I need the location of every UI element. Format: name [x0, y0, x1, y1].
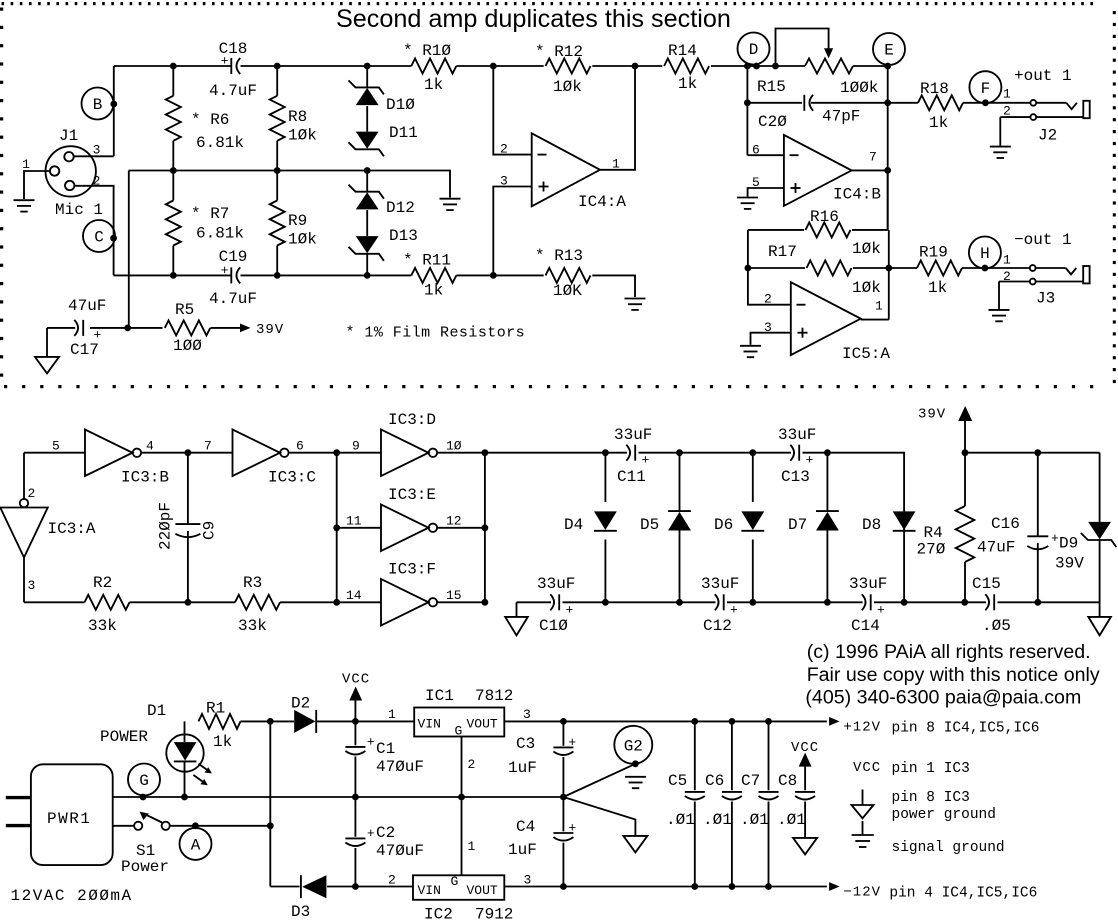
svg-text:1ØK: 1ØK: [553, 282, 582, 300]
svg-text:D7: D7: [788, 516, 807, 534]
junction node G: [140, 794, 147, 801]
svg-text:47ØuF: 47ØuF: [376, 842, 424, 860]
wire IC1 ground pin: [462, 737, 476, 798]
wire mid rail: [129, 171, 450, 198]
svg-text:+: +: [806, 453, 814, 468]
svg-text:C19: C19: [219, 248, 248, 266]
junction C20 right: [884, 99, 891, 106]
svg-text:IC3:A: IC3:A: [48, 520, 96, 538]
junction pot wiper: [772, 63, 779, 70]
wire J3 ground stem: [998, 282, 1000, 309]
node A: [180, 828, 212, 860]
wire C20 rail: [747, 102, 887, 104]
wire IC3:B output: [141, 439, 188, 454]
signal ground at J1 pin 1: [14, 200, 35, 211]
svg-text:IC3:E: IC3:E: [388, 486, 436, 504]
note: 1% film resistors: [346, 325, 526, 342]
svg-text:7: 7: [869, 150, 877, 165]
junction R12/R14: [632, 63, 639, 70]
wire -12V rail: [563, 886, 827, 888]
junction R17 right: [885, 265, 892, 272]
junction node D left: [744, 63, 751, 70]
svg-text:47ØuF: 47ØuF: [376, 758, 424, 776]
capacitor C15: [972, 575, 1011, 635]
svg-text:47uF: 47uF: [68, 297, 106, 315]
svg-text:D8: D8: [862, 516, 881, 534]
svg-text:C18: C18: [219, 40, 248, 58]
wire pump bottom rail: [517, 601, 1100, 603]
svg-text:D13: D13: [389, 227, 418, 245]
svg-text:1k: 1k: [929, 114, 948, 132]
svg-text:3: 3: [523, 707, 531, 722]
svg-text:1: 1: [388, 707, 396, 722]
svg-text:D6: D6: [714, 516, 733, 534]
junction top D10: [364, 63, 371, 70]
resistor R13: [535, 247, 591, 300]
junction C1 rail: [352, 794, 359, 801]
svg-text:1k: 1k: [424, 76, 443, 94]
junction G2: [632, 760, 639, 767]
capacitor C1: [345, 721, 424, 797]
svg-text:C1Ø: C1Ø: [539, 617, 568, 635]
wire J1 pin1 to ground: [24, 171, 50, 199]
junction C5 bottom: [691, 883, 698, 890]
junction G2 fan: [560, 794, 567, 801]
junction C9 bottom: [185, 599, 192, 606]
wire IC2 output: [504, 873, 563, 888]
junction C4 bottom: [560, 883, 567, 890]
junction C3 top: [560, 718, 567, 725]
svg-text:1Øk: 1Øk: [852, 279, 881, 297]
capacitor C2: [345, 797, 424, 887]
svg-text:VOUT: VOUT: [467, 883, 498, 898]
svg-text:(405) 340-6300 paia@paia.com: (405) 340-6300 paia@paia.com: [805, 687, 1081, 709]
svg-text:IC3:B: IC3:B: [121, 469, 169, 487]
svg-text:pin 4 IC4,IC5,IC6: pin 4 IC4,IC5,IC6: [889, 886, 1037, 902]
wire E vertical: [887, 66, 889, 230]
junction 39V feed: [124, 325, 131, 332]
capacitor C16: [977, 453, 1059, 603]
junction pump top D4: [602, 449, 609, 456]
svg-text:R14: R14: [668, 42, 697, 60]
legend power ground: [852, 790, 996, 824]
junction AC vertical: [267, 822, 274, 829]
svg-text:IC3:F: IC3:F: [388, 561, 436, 579]
svg-text:+out 1: +out 1: [1014, 67, 1072, 85]
capacitor C12: [701, 575, 739, 635]
svg-text:33uF: 33uF: [537, 575, 575, 593]
transformer PWR1: [31, 764, 113, 865]
junction regulators ground: [458, 794, 465, 801]
svg-text:27Ø: 27Ø: [917, 541, 946, 559]
wire 39V feed vertical: [128, 171, 130, 328]
junction mid D11: [364, 167, 371, 174]
svg-text:1Ø: 1Ø: [446, 439, 462, 454]
svg-text:6.81k: 6.81k: [196, 225, 244, 243]
wire R16 left: [748, 230, 791, 305]
junction IC4:B output: [884, 167, 891, 174]
svg-text:C16: C16: [991, 515, 1020, 533]
svg-text:C8: C8: [778, 772, 797, 790]
capacitor C5: [668, 721, 705, 886]
junction R1/D2: [267, 718, 274, 725]
svg-text:1uF: 1uF: [508, 759, 537, 777]
wire D vertical: [746, 66, 748, 155]
resistor R16: [806, 208, 881, 258]
svg-text:33uF: 33uF: [849, 575, 887, 593]
wire R19 leads: [889, 267, 985, 269]
svg-text:3: 3: [500, 173, 508, 188]
wire R5 to arrow: [211, 327, 241, 329]
wire G2 fan up: [563, 764, 635, 797]
svg-text:C13: C13: [781, 468, 810, 486]
op-amp IC4:B: [752, 135, 881, 206]
svg-text:2: 2: [500, 142, 508, 157]
svg-text:IC3:C: IC3:C: [268, 469, 316, 487]
svg-text:pin 8 IC3: pin 8 IC3: [892, 790, 970, 806]
wire IC5:A output: [861, 319, 889, 321]
resistor R11: [403, 252, 456, 300]
svg-text:1k: 1k: [678, 75, 697, 93]
svg-text:* R12: * R12: [535, 43, 583, 61]
capacitor C11: [614, 426, 652, 486]
svg-text:VIN: VIN: [418, 883, 441, 898]
svg-text:G: G: [455, 724, 463, 739]
svg-text:R15: R15: [757, 78, 786, 96]
junction pump bottom D6: [749, 599, 756, 606]
junction C2/D3: [352, 883, 359, 890]
svg-text:R19: R19: [919, 244, 948, 262]
inverter IC3:F: [381, 561, 437, 626]
svg-text:.Ø1: .Ø1: [740, 811, 769, 829]
junction pump top D6: [749, 449, 756, 456]
svg-text:47pF: 47pF: [822, 108, 860, 126]
svg-text:4.7uF: 4.7uF: [209, 290, 257, 308]
svg-text:G: G: [139, 772, 149, 790]
svg-text:IC3:D: IC3:D: [388, 411, 436, 429]
junction top R8: [274, 63, 281, 70]
svg-text:15: 15: [446, 588, 462, 603]
regulator IC2 7912: [413, 874, 513, 920]
wire IC4:B output: [852, 169, 888, 171]
op-amp IC5:A: [764, 282, 890, 363]
svg-text:.Ø1: .Ø1: [703, 811, 732, 829]
svg-text:−12V: −12V: [843, 885, 881, 901]
wire D2 leads: [270, 720, 355, 722]
svg-text:+: +: [568, 820, 576, 835]
svg-text:J3: J3: [1036, 290, 1055, 308]
svg-text:pin 1 IC3: pin 1 IC3: [892, 761, 970, 777]
junction row1 x336: [333, 449, 340, 456]
switch S1: [121, 812, 170, 876]
junction pump top D7: [824, 449, 831, 456]
wire ground rail left: [113, 796, 564, 798]
legend VCC: [853, 760, 970, 777]
svg-text:* R1Ø: * R1Ø: [403, 42, 451, 60]
wire G2 fan down: [563, 797, 635, 836]
svg-text:1: 1: [1003, 87, 1011, 102]
svg-text:.Ø1: .Ø1: [777, 811, 806, 829]
svg-text:33uF: 33uF: [701, 575, 739, 593]
wire IC4:B pin5: [748, 188, 784, 197]
svg-text:6: 6: [296, 439, 304, 454]
wire R2 leads: [24, 601, 235, 603]
svg-text:Second amp duplicates this sec: Second amp duplicates this section: [336, 5, 731, 33]
wire bottom rail R13 to ground: [592, 275, 635, 297]
resistor R1: [199, 700, 241, 752]
signal ground at IC4:B pin5: [737, 198, 758, 209]
svg-text:C7: C7: [741, 772, 760, 790]
svg-text:power ground: power ground: [892, 807, 996, 823]
zener D13: [349, 210, 418, 275]
resistor R19: [917, 244, 962, 298]
svg-text:R17: R17: [768, 243, 797, 261]
svg-text:D2: D2: [291, 695, 310, 713]
junction VCC/C1: [352, 718, 359, 725]
wire IC4:A pin3: [493, 187, 531, 276]
resistor R6: [166, 66, 244, 171]
node G2: [614, 726, 652, 764]
signal ground at J3: [989, 310, 1010, 321]
svg-text:* 1% Film Resistors: * 1% Film Resistors: [346, 325, 526, 342]
junction R10/R12: [490, 63, 497, 70]
svg-text:+: +: [367, 734, 375, 749]
svg-text:IC1: IC1: [425, 687, 454, 705]
junction 39V rail R4: [962, 449, 969, 456]
svg-text:12VAC 2ØØmA: 12VAC 2ØØmA: [11, 887, 133, 905]
svg-text:R18: R18: [920, 80, 949, 98]
svg-text:7812: 7812: [475, 687, 513, 705]
wire IC5:A pin3: [751, 333, 791, 345]
svg-text:+: +: [730, 602, 738, 617]
wire 39V top rail: [965, 452, 1100, 454]
junction row1 x484: [482, 449, 489, 456]
svg-text:47uF: 47uF: [977, 539, 1015, 557]
junction C7 top: [765, 718, 772, 725]
wire node D to pot: [757, 65, 806, 67]
wire S1 lead: [113, 825, 134, 827]
junction mid R6: [170, 167, 177, 174]
svg-text:1k: 1k: [213, 733, 232, 751]
svg-text:+: +: [642, 453, 650, 468]
svg-text:.Ø5: .Ø5: [982, 617, 1011, 635]
capacitor C20: [758, 95, 860, 131]
label .01 C5: [666, 811, 695, 829]
resistor R2: [85, 574, 130, 635]
svg-text:D3: D3: [291, 903, 310, 920]
wire IC3:A input: [24, 453, 35, 501]
diode D2: [291, 695, 316, 733]
label +out 1: [1014, 67, 1072, 85]
resistor R9: [270, 171, 317, 276]
wire top rail R14 to node D: [711, 65, 756, 67]
wire IC4:A output: [600, 66, 635, 170]
svg-text:Mic 1: Mic 1: [55, 201, 103, 219]
arrow 39V rail: [918, 406, 972, 423]
junction node C: [110, 235, 117, 242]
wire J1 pin3 to node B: [74, 155, 114, 157]
svg-text:C11: C11: [617, 468, 646, 486]
junction pump bottom D4: [602, 599, 609, 606]
capacitor C19: [209, 248, 257, 308]
diode D3: [291, 875, 326, 920]
wire to IC3:D: [337, 439, 381, 454]
junction node F: [982, 99, 989, 106]
svg-text:2: 2: [468, 757, 476, 772]
svg-text:* R13: * R13: [535, 247, 583, 265]
capacitor C8: [778, 740, 819, 838]
svg-text:D9: D9: [1059, 535, 1078, 553]
wire mid vertical x336: [336, 453, 338, 603]
svg-text:4.7uF: 4.7uF: [209, 82, 257, 100]
junction C6 top: [729, 718, 736, 725]
svg-text:39V: 39V: [1055, 555, 1084, 573]
junction R17 left: [745, 265, 752, 272]
svg-text:(c) 1996 PAiA all rights reser: (c) 1996 PAiA all rights reserved.: [807, 641, 1091, 663]
svg-text:signal ground: signal ground: [892, 840, 1005, 856]
svg-text:R2: R2: [93, 574, 112, 592]
resistor R8: [270, 66, 317, 171]
power ground at G2 fan: [623, 836, 647, 853]
junction pump bottom D5: [676, 599, 683, 606]
signal ground at J2: [990, 147, 1011, 158]
inverter IC3:C: [233, 430, 317, 487]
wire S1 to vertical: [170, 825, 270, 827]
wire IC2 ground pin: [462, 797, 476, 875]
arrow 39V at R5: [240, 322, 284, 338]
svg-text:J2: J2: [1038, 127, 1057, 145]
pot R15: [757, 59, 878, 98]
wire top rail B to R10: [114, 65, 412, 67]
wire to IC3:C: [188, 439, 233, 454]
junction pump bottom D8: [901, 599, 908, 606]
svg-text:1: 1: [1003, 253, 1011, 268]
svg-text:33uF: 33uF: [778, 426, 816, 444]
node G: [128, 764, 160, 796]
inverter IC3:D: [381, 411, 437, 476]
wire R1 lead: [241, 720, 271, 722]
wire R3 to junction: [280, 601, 337, 603]
svg-text:1uF: 1uF: [508, 841, 537, 859]
svg-text:3: 3: [524, 873, 532, 888]
wire IC3:C output: [288, 439, 336, 454]
svg-text:* R7: * R7: [191, 205, 229, 223]
junction pump bottom D7: [824, 599, 831, 606]
svg-text:5: 5: [52, 439, 60, 454]
svg-text:3: 3: [28, 578, 36, 593]
wire pump top rail: [485, 453, 904, 603]
regulator IC1 7812: [414, 687, 513, 739]
svg-text:* R11: * R11: [403, 252, 451, 270]
capacitor C3: [508, 721, 576, 797]
power ground at D9: [1088, 602, 1111, 635]
junction mid R8: [274, 167, 281, 174]
svg-text:Fair use copy with this notice: Fair use copy with this notice only: [807, 664, 1100, 686]
svg-text:R1: R1: [206, 700, 225, 718]
svg-text:J1: J1: [59, 127, 78, 145]
svg-text:R9: R9: [288, 212, 307, 230]
pot R15 wiper loop: [776, 29, 834, 67]
svg-text:IC4:B: IC4:B: [833, 186, 881, 204]
inverter IC3:A: [0, 499, 96, 558]
svg-text:B: B: [93, 96, 103, 114]
svg-text:R5: R5: [175, 301, 194, 319]
svg-text:C3: C3: [516, 735, 535, 753]
svg-text:C17: C17: [70, 341, 99, 359]
wire R12 node to IC4:A pin2: [493, 66, 531, 155]
zener D11: [349, 106, 418, 156]
svg-text:1ØØk: 1ØØk: [840, 79, 878, 97]
svg-text:9: 9: [352, 439, 360, 454]
inverter IC3:B: [85, 430, 169, 487]
svg-text:PWR1: PWR1: [47, 810, 91, 828]
svg-text:7: 7: [204, 439, 212, 454]
junction pump bottom C16: [1034, 599, 1041, 606]
svg-text:7912: 7912: [475, 906, 513, 920]
svg-text:4: 4: [146, 439, 154, 454]
wire R17 rail: [748, 267, 889, 269]
junction D1 rail: [181, 794, 188, 801]
resistor R4: [917, 506, 975, 562]
svg-text:D5: D5: [640, 516, 659, 534]
signal ground mid rail: [440, 199, 461, 210]
svg-text:1: 1: [468, 839, 476, 854]
resistor R3: [235, 574, 280, 635]
label -out 1: [1014, 231, 1072, 249]
resistor R10: [403, 42, 456, 94]
svg-text:C2: C2: [376, 824, 395, 842]
zener D9: [1055, 453, 1116, 603]
junction 39V rail C16: [1034, 449, 1041, 456]
wire outputs vertical x484: [484, 453, 486, 603]
svg-text:IC4:A: IC4:A: [578, 193, 626, 211]
inverter IC3:E: [381, 486, 437, 551]
svg-text:+: +: [568, 735, 576, 750]
signal ground at G2: [625, 777, 646, 788]
capacitor C14: [849, 575, 887, 635]
svg-text:IC5:A: IC5:A: [842, 345, 890, 363]
wire to IC3:F: [337, 588, 381, 603]
label .01 C6: [703, 811, 732, 829]
diode D8: [862, 511, 916, 534]
label .01 C8: [777, 811, 806, 829]
svg-text:12: 12: [446, 514, 462, 529]
svg-text:D12: D12: [386, 199, 415, 217]
svg-text:C2Ø: C2Ø: [758, 113, 787, 131]
svg-text:D: D: [749, 41, 759, 59]
connector J1 Mic 1 (XLR): [22, 127, 103, 219]
junction bottom D13: [364, 272, 371, 279]
power ground at C17: [35, 357, 59, 374]
wire bottom rail R11 to R13: [456, 274, 543, 276]
svg-text:R8: R8: [288, 108, 307, 126]
svg-text:E: E: [884, 42, 894, 60]
svg-text:F: F: [981, 80, 991, 98]
signal ground at R13: [625, 299, 646, 310]
junction pump top D5: [676, 449, 683, 456]
svg-text:.Ø1: .Ø1: [666, 811, 695, 829]
junction node A: [192, 822, 199, 829]
junction C5 top: [691, 718, 698, 725]
svg-text:A: A: [191, 837, 201, 855]
node B: [82, 88, 114, 120]
wire IC3:B input: [24, 439, 85, 454]
junction row3 x336: [333, 599, 340, 606]
wire AC vertical: [269, 721, 271, 886]
svg-text:G2: G2: [624, 738, 643, 756]
label .01 C7: [740, 811, 769, 829]
power ground at C10: [505, 602, 528, 635]
